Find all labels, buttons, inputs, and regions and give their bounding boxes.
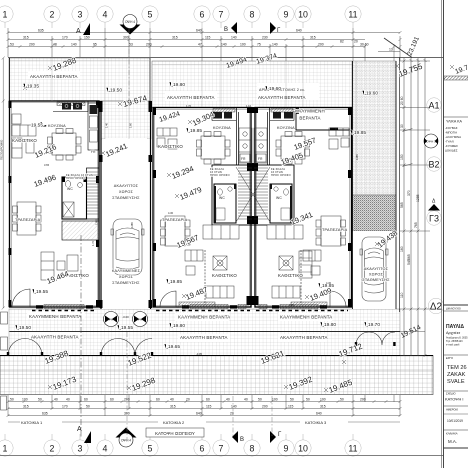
covered veranda band bottom: [9, 309, 400, 332]
core wc fixtures: [216, 187, 290, 220]
svg-text:WC: WC: [276, 196, 282, 200]
svg-text:6: 6: [200, 10, 205, 20]
svg-text:ΚΟΥΖΙΝΑ: ΚΟΥΖΙΝΑ: [48, 124, 66, 128]
level flag 19.85: [166, 279, 182, 285]
svg-text:1.40: 1.40: [105, 122, 109, 128]
entrance door arcs bottom walls: [7, 289, 396, 356]
svg-text:A: A: [76, 28, 81, 35]
right grid bubbles: [427, 98, 444, 314]
svg-text:635: 635: [42, 412, 48, 416]
svg-text:ΑΚΑΛΥΠΤΗ ΒΕΡΑΝΤΑ: ΑΚΑΛΥΠΤΗ ΒΕΡΑΝΤΑ: [180, 335, 228, 340]
svg-text:ΚΑΘΙΣΤΙΚΟ: ΚΑΘΙΣΤΙΚΟ: [212, 273, 237, 278]
svg-text:-ΣΟΥΒΑΣ: -ΣΟΥΒΑΣ: [445, 126, 458, 130]
unit2 furniture group: [157, 128, 252, 298]
svg-text:ΠΕΖΟΔΡΟΜΙΟ: ΠΕΖΟΔΡΟΜΙΟ: [0, 139, 4, 160]
svg-text:Αρχιτέκτ: Αρχιτέκτ: [446, 331, 461, 335]
title: katopsi isogeiou: [146, 428, 204, 437]
svg-text:150: 150: [84, 36, 90, 40]
svg-text:140: 140: [231, 405, 237, 409]
svg-text:19.60: 19.60: [269, 86, 281, 92]
svg-text:8: 8: [250, 444, 255, 454]
room labels: [12, 74, 390, 340]
svg-text:48: 48: [53, 43, 57, 47]
gate posts: [7, 342, 396, 356]
top veranda unit1 hatch: [9, 58, 150, 101]
svg-text:60: 60: [84, 398, 88, 402]
svg-text:10: 10: [298, 10, 308, 20]
svg-text:B: B: [224, 27, 228, 33]
SEC:HATCH: [0, 58, 443, 395]
svg-text:60: 60: [206, 398, 210, 402]
svg-text:50: 50: [290, 398, 294, 402]
light extension lines into verandas: [10, 58, 394, 231]
svg-text:ΕΡΓΟ: ΕΡΓΟ: [446, 356, 453, 360]
svg-text:110: 110: [400, 292, 404, 298]
svg-text:-ΓΥΑΛΙ: -ΓΥΑΛΙ: [445, 140, 454, 144]
svg-text:ΧΩΡΟΣ: ΧΩΡΟΣ: [369, 273, 384, 277]
top-right street hatch strip: [444, 76, 468, 80]
section marker A top: [83, 23, 90, 35]
unit3 furniture (mirrored copy of unit2): [254, 128, 349, 298]
svg-text:ΔΟΚΙΔΕΣ: ΔΟΚΙΔΕΣ: [445, 149, 458, 153]
dim line row1: [8, 32, 400, 34]
svg-text:ΚΑΛΥΜΜΕΝΗ: ΚΑΛΥΜΜΕΝΗ: [295, 109, 325, 114]
svg-text:ΚΑΘΙΣΤΙΚΟ: ΚΑΘΙΣΤΙΚΟ: [158, 144, 183, 149]
svg-text:2: 2: [50, 10, 55, 20]
dim numbers row1: [38, 29, 302, 40]
parking strip open part white: [102, 139, 150, 309]
svg-text:ΠΡΟΣ ΟΡΟΦΟ: ΠΡΟΣ ΟΡΟΦΟ: [210, 173, 230, 177]
svg-text:50: 50: [38, 398, 42, 402]
unit1 sofa top: [12, 125, 36, 136]
window sills (hatched) on bottom walls: [44, 102, 318, 309]
svg-text:20: 20: [186, 398, 190, 402]
svg-text:1285: 1285: [95, 219, 99, 225]
unit1 tv stand: [67, 255, 78, 271]
svg-text:40: 40: [244, 398, 248, 402]
svg-text:20: 20: [354, 40, 358, 44]
svg-text:ΑΚΑΛΥΠΤΗ ΒΕΡΑΝΤΑ: ΑΚΑΛΥΠΤΗ ΒΕΡΑΝΤΑ: [280, 335, 328, 340]
svg-text:19.70: 19.70: [368, 322, 380, 328]
svg-text:19.50: 19.50: [110, 88, 122, 94]
svg-text:315: 315: [23, 36, 29, 40]
svg-text:200: 200: [262, 405, 268, 409]
svg-text:ΚΑΘΙΣΤΙΚΟ: ΚΑΘΙΣΤΙΚΟ: [278, 273, 303, 278]
svg-text:8: 8: [250, 10, 255, 20]
svg-text:19.35: 19.35: [27, 84, 39, 90]
svg-text:40: 40: [54, 398, 58, 402]
svg-text:170: 170: [62, 36, 68, 40]
svg-text:7: 7: [219, 444, 224, 454]
svg-text:200: 200: [146, 43, 152, 47]
svg-text:ΟΨΗ 4: ΟΨΗ 4: [125, 20, 135, 24]
svg-text:3: 3: [78, 10, 83, 20]
svg-text:315: 315: [23, 405, 29, 409]
svg-text:170: 170: [62, 405, 68, 409]
svg-text:ΚΑΤΟΨΗ Ι: ΚΑΤΟΨΗ Ι: [445, 397, 463, 402]
inner wall faces: [11, 103, 349, 305]
svg-text:53: 53: [129, 43, 133, 47]
unit3 tv sideboard: [291, 302, 327, 307]
section dash-dot line A: [80, 235, 82, 438]
SEC:FURN: [12, 114, 82, 280]
unit1 sofa left: [12, 138, 22, 158]
svg-text:19.80: 19.80: [324, 322, 336, 328]
svg-text:ΤΡΑΠΕΖΑΡΙΑ: ΤΡΑΠΕΖΑΡΙΑ: [15, 218, 41, 222]
svg-text:300: 300: [123, 36, 129, 40]
svg-text:19.55: 19.55: [31, 123, 43, 129]
SEC:TOPDIM: [7, 28, 402, 61]
svg-text:4.30: 4.30: [326, 281, 332, 285]
svg-text:20 60: 20 60: [400, 96, 404, 105]
svg-text:765: 765: [414, 222, 418, 228]
dim rows: [8, 401, 400, 403]
rotated level labels: [33, 35, 424, 394]
svg-text:4: 4: [103, 444, 108, 454]
kitchen wall unit3: [268, 108, 270, 166]
svg-text:315: 315: [170, 405, 176, 409]
svg-text:ΑΚΑΛΥΠΤΗ ΒΕΡΑΝΤΑ: ΑΚΑΛΥΠΤΗ ΒΕΡΑΝΤΑ: [30, 74, 78, 79]
road mid joint line: [0, 370, 433, 372]
level flag 19.85: [186, 128, 202, 134]
extension lines top: [8, 28, 400, 61]
svg-text:53: 53: [10, 43, 14, 47]
svg-text:19.80: 19.80: [173, 323, 185, 329]
svg-text:ΣΤΑΘΜΕΥΣΗΣ: ΣΤΑΘΜΕΥΣΗΣ: [362, 278, 390, 282]
svg-text:60: 60: [110, 398, 114, 402]
wc unit3: [270, 184, 292, 223]
svg-text:19.65: 19.65: [168, 344, 180, 350]
unit3 kitchen top counter: [270, 111, 294, 121]
svg-text:FR: FR: [91, 150, 96, 154]
svg-text:315: 315: [172, 36, 178, 40]
svg-text:640: 640: [296, 29, 302, 33]
level flags: [15, 82, 380, 350]
dim numbers row3: [10, 40, 393, 52]
svg-text:ΚΑΘΙΣΤΙΚΟ: ΚΑΘΙΣΤΙΚΟ: [12, 138, 37, 143]
svg-text:19.80: 19.80: [173, 82, 185, 88]
tick marks row1: [7, 31, 402, 34]
svg-text:FR: FR: [258, 157, 263, 161]
wc dark walls: [214, 184, 293, 223]
right strip hatch upper: [353, 61, 397, 195]
opsi4 symbol top: [120, 15, 141, 35]
unit1 kitchen table: [52, 133, 76, 155]
svg-text:565: 565: [407, 254, 411, 260]
white text boxes on verandas: [28, 71, 80, 79]
svg-text:WC: WC: [67, 187, 73, 191]
svg-text:1: 1: [3, 10, 8, 20]
svg-text:10: 10: [298, 444, 308, 454]
svg-text:150: 150: [400, 154, 404, 160]
svg-text:30 60: 30 60: [360, 43, 369, 47]
level flag 19.50: [106, 88, 122, 94]
svg-text:19.50: 19.50: [19, 325, 31, 331]
svg-text:50: 50: [258, 398, 262, 402]
unit2 kitchen appliances: [213, 112, 232, 119]
svg-text:ΚΑΤΟΙΚΙΑ 2: ΚΑΤΟΙΚΙΑ 2: [163, 420, 185, 425]
section marker Gamma bottom: [270, 431, 276, 443]
svg-text:5: 5: [148, 10, 153, 20]
section marker B top: [231, 22, 237, 34]
svg-text:30: 30: [400, 124, 404, 128]
unit2 tv sideboard: [179, 302, 215, 307]
svg-text:75: 75: [257, 43, 261, 47]
svg-text:2.80: 2.80: [289, 303, 295, 307]
car 1 in left parking strip: [111, 219, 144, 275]
svg-text:ΠΡΟΣ ΟΡΟΦΟ: ΠΡΟΣ ΟΡΟΦΟ: [271, 173, 291, 177]
SEC:WALLS: [0, 58, 433, 356]
svg-text:640: 640: [316, 412, 322, 416]
svg-text:B: B: [240, 437, 244, 443]
car 2 in right parking strip: [360, 237, 388, 301]
dim line row2: [8, 39, 365, 41]
svg-text:e-mail: pavli: e-mail: pavli: [446, 344, 460, 347]
svg-text:SVALE: SVALE: [447, 379, 465, 385]
svg-text:10/01/2019: 10/01/2019: [447, 419, 463, 423]
level flag 19.70: [364, 322, 380, 328]
svg-text:40: 40: [66, 398, 70, 402]
svg-text:ΣΤΑΘΜΕΥΣΗΣ: ΣΤΑΘΜΕΥΣΗΣ: [112, 196, 140, 200]
svg-text:ΚΑΛΥΜΜΕΝΗ ΒΕΡΑΝΤΑ: ΚΑΛΥΜΜΕΝΗ ΒΕΡΑΝΤΑ: [29, 314, 81, 319]
svg-text:ΑΚΑΛΥΠΤΗ ΒΕΡΑΝΤΑ: ΑΚΑΛΥΠΤΗ ΒΕΡΑΝΤΑ: [31, 335, 79, 340]
svg-text:Γ3: Γ3: [429, 214, 439, 224]
balcony rail dashes bottom verandas: [32, 310, 348, 312]
svg-text:1.60: 1.60: [129, 122, 133, 128]
svg-text:ΒΕΡΑΝΤΑ: ΒΕΡΑΝΤΑ: [299, 116, 320, 121]
unit3 top-right covered veranda notch: [296, 108, 350, 130]
svg-text:ΚΟΥΖΙΝΑ: ΚΟΥΖΙΝΑ: [277, 126, 295, 130]
svg-text:40: 40: [226, 398, 230, 402]
wc unit2: [214, 184, 236, 223]
svg-text:115: 115: [205, 36, 211, 40]
svg-text:A1: A1: [428, 101, 439, 111]
svg-text:ZAKAK: ZAKAK: [447, 372, 466, 378]
unit2 perimeter: [153, 108, 251, 308]
svg-text:ΧΩΡΟΣ: ΧΩΡΟΣ: [119, 190, 134, 194]
svg-text:-ΣΥΝΜΕΣ: -ΣΥΝΜΕΣ: [445, 144, 458, 148]
svg-text:-0.05: -0.05: [196, 352, 202, 356]
frame line bottom: [0, 455, 443, 457]
svg-text:19.55: 19.55: [36, 289, 48, 295]
svg-text:-ΑΛΟΥΜΙΝΑ: -ΑΛΟΥΜΙΝΑ: [445, 135, 461, 139]
black structural columns: [9, 101, 352, 309]
svg-text:640: 640: [196, 412, 202, 416]
svg-text:ΤΡΑΠΕΖΑΡΙΑ: ΤΡΑΠΕΖΑΡΙΑ: [162, 218, 188, 222]
svg-text:7: 7: [219, 10, 224, 20]
svg-text:ΧΩΡΟΣ: ΧΩΡΟΣ: [119, 275, 134, 279]
svg-text:ΠΡΟΣ ΟΡΟΦΟ: ΠΡΟΣ ΟΡΟΦΟ: [66, 176, 86, 180]
svg-text:140: 140: [71, 43, 77, 47]
svg-text:9: 9: [284, 10, 289, 20]
svg-text:ΟΨΗ 3: ΟΨΗ 3: [426, 140, 436, 144]
unit1 perimeter walls: [10, 101, 100, 307]
unit1 dining table: [17, 202, 36, 235]
svg-text:100: 100: [272, 398, 278, 402]
level flag 19.80: [169, 82, 185, 88]
pavement / road band: [0, 356, 433, 395]
svg-text:315: 315: [310, 36, 316, 40]
site boundary top line: [8, 57, 443, 59]
svg-text:3: 3: [78, 444, 83, 454]
unit1 wc: [62, 177, 87, 219]
svg-text:ΟΨΗ 4: ΟΨΗ 4: [121, 439, 131, 443]
svg-text:-0.00: -0.00: [122, 315, 129, 319]
svg-text:ΑΚΑΛΥΠΤΟΣ: ΑΚΑΛΥΠΤΟΣ: [114, 184, 139, 188]
dim numbers row2: [23, 36, 369, 47]
svg-text:200: 200: [318, 43, 324, 47]
unit1 coffee table low: [57, 261, 65, 270]
unit1 stair landing: [62, 221, 99, 240]
svg-text:ΥΛΙΚΑ ΚΑ: ΥΛΙΚΑ ΚΑ: [446, 120, 463, 124]
core units 2-3 outline: [212, 165, 294, 225]
svg-text:ΚΑΛΥΜΜΕΝΗ ΒΕΡΑΝΤΑ: ΚΑΛΥΜΜΕΝΗ ΒΕΡΑΝΤΑ: [178, 315, 230, 320]
opsi3 symbol: [424, 134, 438, 148]
svg-text:19.60: 19.60: [366, 91, 378, 97]
right site boundary line: [399, 58, 401, 313]
svg-text:100: 100: [240, 43, 246, 47]
svg-text:ΔΙΚΑΙΟΥΧΟΙ: ΔΙΚΑΙΟΥΧΟΙ: [445, 307, 461, 311]
svg-text:-ΜΠΟΓΙΑ: -ΜΠΟΓΙΑ: [445, 131, 457, 135]
katoikia labels: [8, 420, 400, 425]
svg-text:60: 60: [156, 398, 160, 402]
svg-text:160: 160: [400, 246, 404, 252]
svg-text:565: 565: [400, 202, 404, 208]
svg-text:13: 13: [389, 48, 393, 52]
opsi5 / opsi6 symbols: [104, 312, 148, 327]
svg-text:9: 9: [284, 444, 289, 454]
svg-text:Δ2: Δ2: [430, 302, 443, 313]
section marker B bottom: [232, 431, 238, 443]
SEC:BOTTOM: [7, 395, 402, 417]
level flag 19.55: [31, 122, 46, 128]
svg-text:ΤΕΜ 26: ΤΕΜ 26: [447, 365, 467, 371]
svg-text:1: 1: [3, 444, 8, 454]
svg-text:20: 20: [230, 412, 234, 416]
svg-text:6: 6: [200, 444, 205, 454]
left margin dim line: [2, 57, 5, 310]
level flag 19.85: [350, 130, 366, 136]
section marker Gamma top: [270, 22, 276, 34]
dash-dot lines opsi4 vertical: [127, 28, 272, 440]
bubble connector stubs top: [5, 22, 353, 440]
parking strip top hatch 19.241: [101, 101, 151, 139]
level flag 19.55: [32, 289, 48, 295]
level flag 19.50: [15, 325, 31, 331]
svg-text:ΚΑΤΟΙΚΙΑ 3: ΚΑΤΟΙΚΙΑ 3: [305, 420, 327, 425]
right margin vertical dims: [400, 58, 430, 357]
svg-text:1.10: 1.10: [246, 104, 252, 108]
level flag 19.80: [169, 323, 185, 329]
svg-text:11: 11: [348, 10, 357, 20]
uncovered veranda band bottom: [9, 332, 400, 356]
unit1 wc fixtures: [65, 181, 70, 188]
svg-text:ΟΨΗ 5: ΟΨΗ 5: [106, 318, 116, 322]
materials list: [444, 117, 468, 153]
svg-text:3.65: 3.65: [44, 163, 50, 167]
svg-text:50: 50: [86, 405, 90, 409]
svg-text:ΠΑΥΛΙΔ: ΠΑΥΛΙΔ: [446, 324, 464, 330]
unit2 partition dining/living: [204, 250, 206, 305]
svg-text:1285: 1285: [416, 194, 420, 202]
svg-text:315: 315: [320, 405, 326, 409]
svg-text:ΗΜΕΡΟΜ.: ΗΜΕΡΟΜ.: [446, 408, 459, 412]
unit3 perimeter: [255, 108, 352, 308]
car symbol def: [111, 219, 388, 301]
unit1 coffee table: [26, 141, 34, 153]
parking strip walls: [101, 101, 151, 309]
grid bubbles top: [0, 6, 361, 22]
unit3 kitchen appliances: [273, 112, 293, 119]
svg-text:1.70: 1.70: [91, 240, 95, 246]
unit1 armchair: [12, 114, 21, 124]
gamma3 triangle: [428, 204, 440, 211]
svg-text:5: 5: [148, 444, 153, 454]
dim numbers bottom: [10, 398, 366, 416]
stair treads unit1: [87, 172, 99, 214]
svg-text:140: 140: [221, 43, 227, 47]
svg-text:WC: WC: [219, 196, 225, 200]
unit3 top-right veranda notch walls: [296, 108, 350, 130]
svg-text:50: 50: [10, 398, 14, 402]
svg-text:FR: FR: [241, 157, 246, 161]
svg-text:4: 4: [103, 10, 108, 20]
svg-text:115: 115: [288, 405, 294, 409]
top veranda units 2-3 hatch: [152, 61, 352, 108]
unit2 kitchen top counter: [212, 111, 236, 121]
bottom veranda dividers unit edges: [10, 331, 401, 333]
opsi4 symbol bottom: [116, 428, 137, 448]
svg-text:ΑΚΑΛΥΠΤΗ ΒΕΡΑΝΤΑ: ΑΚΑΛΥΠΤΗ ΒΕΡΑΝΤΑ: [258, 95, 306, 100]
svg-text:Μ.Α.: Μ.Α.: [448, 439, 457, 444]
svg-text:100: 100: [22, 398, 28, 402]
svg-text:19.55: 19.55: [121, 325, 133, 331]
left street furniture boxes: [1, 312, 8, 410]
right strip boundary: [353, 61, 397, 309]
level flag 19.60: [265, 86, 281, 92]
right strip hatch dark part: [353, 195, 397, 231]
svg-text:115: 115: [206, 405, 212, 409]
svg-text:140: 140: [231, 36, 237, 40]
svg-text:50: 50: [306, 398, 310, 402]
svg-text:1285: 1285: [130, 222, 134, 228]
svg-text:4.30: 4.30: [168, 211, 174, 215]
level flag 19.60: [362, 91, 378, 97]
svg-text:200: 200: [29, 43, 35, 47]
unit1 top veranda outline: [10, 58, 151, 101]
svg-text:B2: B2: [428, 160, 439, 170]
svg-text:100: 100: [320, 398, 326, 402]
svg-text:200: 200: [360, 398, 366, 402]
svg-text:370: 370: [407, 190, 411, 196]
svg-text:ΑΚΑΛΥΠΤΟΣ: ΑΚΑΛΥΠΤΟΣ: [364, 267, 389, 271]
level flag 19.65: [164, 344, 180, 350]
svg-text:ΚΑΤΟΙΚΙΑ 1: ΚΑΤΟΙΚΙΑ 1: [21, 420, 43, 425]
svg-text:ΣΤΑΘΜΕΥΣΗΣ: ΣΤΑΘΜΕΥΣΗΣ: [112, 281, 140, 285]
svg-text:11: 11: [348, 444, 357, 454]
svg-text:140: 140: [272, 43, 278, 47]
title block: [444, 305, 468, 448]
unit1 stair: [87, 168, 100, 219]
svg-text:40: 40: [170, 398, 174, 402]
level flag 19.80: [320, 322, 336, 328]
interior: unit1 kitchen counters: [53, 101, 88, 112]
svg-text:1.70: 1.70: [186, 104, 192, 108]
stair treads core units2-3: [236, 167, 270, 222]
extension lines bottom: [8, 395, 400, 416]
unit3 bookshelf: [299, 251, 312, 278]
svg-text:50: 50: [340, 398, 344, 402]
